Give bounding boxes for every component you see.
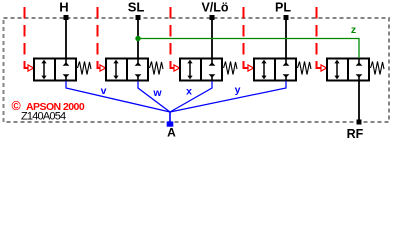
label v [101, 85, 107, 97]
label z [351, 24, 356, 36]
svg-text:z: z [351, 24, 356, 36]
label port PL [275, 0, 291, 14]
svg-text:x: x [186, 86, 192, 98]
svg-text:PL: PL [275, 0, 291, 14]
svg-text:H: H [59, 0, 68, 14]
valve U5 [327, 59, 384, 81]
wire RF (valve U5 to port RF) [358, 81, 360, 122]
svg-text:©: © [12, 99, 22, 113]
valve U2 [106, 59, 163, 81]
pilot line valve U2 [97, 7, 106, 71]
junction z on SL wire [135, 36, 140, 41]
valve U3 [180, 59, 237, 81]
wire H to valve U1 [65, 18, 67, 58]
wire node A drop [169, 112, 171, 122]
node RF [357, 120, 362, 125]
label RF [347, 127, 364, 141]
wire x (valve U3 to node A) [170, 81, 212, 112]
label w [152, 87, 162, 99]
svg-text:Z140A054: Z140A054 [21, 111, 66, 123]
label port SL [128, 0, 145, 14]
node A [167, 122, 174, 127]
label © APSON 2000 [12, 99, 85, 113]
wire PL to valve U4 [285, 18, 287, 58]
label port V/Lö [201, 0, 228, 14]
valve U4 [254, 59, 311, 81]
node PL [284, 15, 289, 20]
wire w (valve U2 to node A) [138, 81, 170, 112]
label y [235, 84, 241, 96]
wire v (valve U1 to node A) [66, 81, 170, 112]
svg-text:RF: RF [347, 127, 364, 141]
svg-text:A: A [167, 126, 176, 140]
label port H [59, 0, 68, 14]
wire SL to valve U2 [137, 18, 139, 58]
pilot line valve U4 [243, 7, 254, 71]
pilot line valve U3 [170, 7, 180, 71]
label x [186, 86, 192, 98]
pilot line valve U1 [24, 7, 34, 71]
pilot line valve U5 [316, 7, 327, 71]
wire z (SL line to valve U5 top port) [138, 39, 359, 59]
svg-text:y: y [235, 84, 241, 96]
svg-text:V/Lö: V/Lö [201, 0, 228, 14]
wire V/Lö to valve U3 [211, 18, 213, 58]
valve U1 [34, 59, 91, 81]
label Z140A054 [21, 111, 66, 123]
node SL [136, 15, 141, 20]
label A [167, 126, 176, 140]
node H [64, 15, 69, 20]
svg-text:v: v [101, 85, 107, 97]
node V/Lö [210, 15, 215, 20]
svg-text:SL: SL [128, 0, 145, 14]
wire y (valve U4 to node A) [170, 81, 286, 112]
svg-text:w: w [152, 87, 162, 99]
